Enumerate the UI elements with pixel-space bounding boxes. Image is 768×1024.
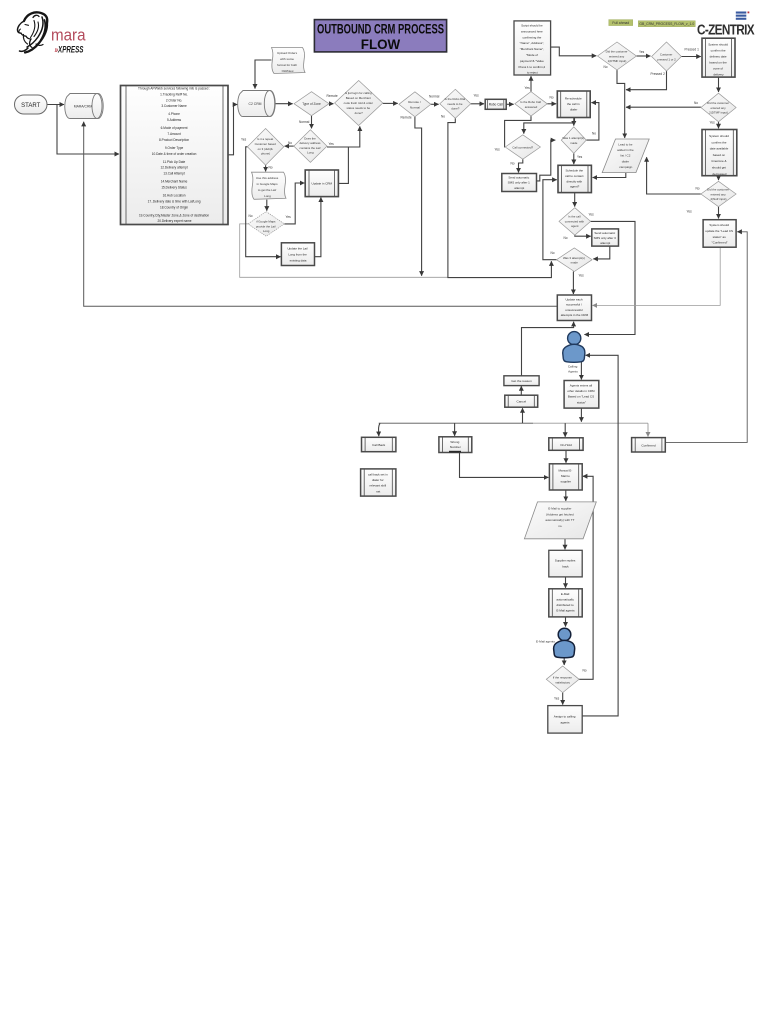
wire email parallelogram to supplier replies — [564, 539, 566, 550]
diamond: does delivery address contain lat/long — [294, 130, 327, 163]
wire distribution line gray — [533, 422, 648, 424]
wire update-in-crm loop to junction — [338, 147, 348, 183]
svg-text:MARA/CRM: MARA/CRM — [74, 105, 93, 109]
svg-text:No: No — [441, 115, 445, 119]
svg-text:Normal: Normal — [429, 95, 440, 99]
svg-text:Yes: Yes — [241, 138, 247, 142]
wire re-schedule to call connected top — [524, 118, 575, 134]
green tag 2 — [638, 21, 695, 27]
svg-text:Remote: Remote — [327, 94, 338, 98]
svg-text:E-Mail agents: E-Mail agents — [536, 640, 555, 644]
svg-text:No: No — [604, 65, 608, 69]
diamond: type of zone — [294, 92, 329, 116]
box: script announced — [514, 21, 551, 75]
box: agents enters details in CRM — [564, 381, 599, 409]
wire crm update return to mara crm — [84, 122, 558, 306]
header layer — [18, 12, 755, 55]
svg-text:No: No — [696, 187, 700, 191]
svg-text:Update in CRM: Update in CRM — [312, 182, 333, 186]
svg-text:Pressed 1: Pressed 1 — [685, 48, 700, 52]
wire upload doc to c2 crm — [255, 60, 272, 89]
diamond: customer entered 2 No# — [701, 181, 736, 206]
svg-text:Type of Zone: Type of Zone — [302, 102, 321, 106]
box: cancel — [505, 395, 538, 407]
svg-text:Remote / Normal: Remote / Normal — [408, 100, 421, 109]
svg-text:Yes: Yes — [286, 215, 292, 219]
wire was1 no loop to re-schedule — [586, 103, 599, 141]
wire update-latlong to update-in-crm — [315, 197, 321, 256]
wire branch down into info box — [57, 105, 119, 155]
wire start to mara crm — [47, 104, 64, 106]
wire script to dtmf1 diamond — [551, 47, 597, 56]
svg-text:Update the Lat/ Long from: Update the Lat/ Long from the existing d… — [287, 247, 308, 263]
svg-text:C-ZENTRIX: C-ZENTRIX — [697, 23, 755, 39]
svg-text:Did the customer entered a: Did the customer entered any 1(DTMF inpu… — [606, 50, 629, 64]
wire schedule box to connected-with-agent — [574, 193, 576, 207]
wire c2 crm to type of zone — [276, 103, 293, 105]
wire dtmf2 no merge — [626, 106, 701, 108]
c-zentrix logo icon — [736, 12, 747, 20]
wire drop to on-hold — [564, 423, 566, 437]
box: system confirm delivery date by zone — [702, 38, 735, 77]
diamond: is it a repeat customer — [247, 129, 283, 166]
parallelogram: e-mail to supplier auto address — [524, 502, 596, 539]
box: send automatic sms after 1st attempt — [502, 174, 537, 192]
wire connected-with-agent yes to calling agent — [584, 221, 635, 334]
branch labels — [241, 48, 715, 701]
wire email distributed to email agents — [565, 617, 567, 627]
wire drop to wrong number — [454, 423, 456, 436]
wire on-hold to manual email — [565, 450, 567, 463]
diamond: jkd login for calling — [335, 81, 383, 126]
start terminator — [15, 95, 48, 114]
wire robo dial yes to robo call — [471, 103, 484, 105]
svg-text:Confirmed: Confirmed — [641, 443, 656, 447]
svg-text:No: No — [694, 101, 698, 105]
box: confirmed — [632, 438, 666, 452]
wire dtmf2 yes down — [718, 122, 720, 129]
box: re-schedule the call in dialer — [557, 91, 590, 118]
svg-text:Call connected?: Call connected? — [512, 145, 533, 149]
wire assign loop to calling agent body — [582, 355, 618, 716]
svg-text:Robo Call: Robo Call — [489, 103, 503, 107]
box: manual e-mail to supplier — [549, 464, 582, 490]
cylinder C2 CRM — [238, 91, 276, 117]
svg-text:No: No — [564, 236, 568, 240]
wire get-reason to update-crm box — [522, 322, 574, 376]
wire supplier replies to email distributed — [565, 577, 567, 588]
svg-text:No: No — [592, 131, 596, 135]
wire sms3 to was3 — [593, 246, 610, 259]
svg-text:Yes: Yes — [639, 50, 645, 54]
wire was3 yes to update-crm box — [572, 272, 574, 295]
wire sms1 up to was1 left vertex — [537, 140, 556, 181]
svg-text:No: No — [269, 166, 273, 170]
svg-text:Yes: Yes — [687, 210, 693, 214]
wire doc to google diamond — [266, 200, 268, 211]
title box — [314, 20, 446, 52]
svg-text:Did the customer entered a: Did the customer entered any 2(No# input… — [707, 188, 730, 202]
svg-text:FLOW: FLOW — [361, 37, 401, 52]
wire remote/normal normal to robo dial diamond — [431, 103, 439, 105]
wire distribution line dark — [379, 422, 533, 424]
wire re-schedule to was1 — [573, 118, 575, 126]
wire confirm box to dtmf2 diamond — [718, 77, 720, 92]
diamond: customer entered 2 DTMF — [701, 93, 736, 122]
diamond: was 1 attempt made — [561, 127, 586, 154]
wire repeat yes to update-latlong — [246, 147, 281, 257]
diamond: robo call answered — [515, 92, 547, 116]
wires layer — [47, 47, 747, 716]
wire agents box down to distribution — [580, 408, 582, 422]
wire robo answered yes up to script — [530, 76, 532, 91]
svg-text:Yes: Yes — [495, 148, 501, 152]
wire wrong number to manual email — [460, 453, 549, 478]
mara xpress lion logo — [18, 12, 48, 52]
svg-text:No: No — [551, 251, 555, 255]
svg-text:Cancel: Cancel — [516, 400, 526, 404]
wire campaign to schedule box — [593, 173, 626, 178]
svg-text:Full ahmad: Full ahmad — [612, 21, 629, 25]
box: e-mail distributed to agents — [549, 589, 582, 617]
wire confirmed box loop up to status box — [665, 232, 747, 443]
wire jkd diamond to remote/normal — [383, 102, 398, 104]
wire google yes to update-in-crm — [284, 183, 304, 224]
svg-text:No: No — [583, 669, 587, 673]
wire info box to c2 crm — [228, 105, 237, 155]
diamond: is call connected with agent — [559, 208, 591, 235]
wire pressed2 merge — [626, 71, 667, 90]
svg-text:Yes: Yes — [577, 155, 583, 159]
svg-text:Yes: Yes — [589, 213, 595, 217]
box: supplier replies back — [549, 550, 582, 577]
box: assign to calling agents — [548, 706, 582, 734]
box: wrong number — [439, 437, 472, 453]
wire response no loop to manual email — [579, 476, 593, 679]
svg-text:mara: mara — [51, 26, 86, 45]
wire dtmf1 yes to pressed diamond — [637, 55, 651, 57]
svg-text:On-Hold: On-Hold — [560, 443, 572, 447]
person: calling agents — [563, 332, 585, 374]
svg-text:START: START — [21, 103, 40, 109]
svg-text:Get the reason: Get the reason — [511, 379, 532, 383]
svg-text:GB_CRM_PROCESS_FLOW_v_1.0: GB_CRM_PROCESS_FLOW_v_1.0 — [639, 22, 694, 26]
svg-text:Remote: Remote — [401, 116, 412, 120]
svg-text:No: No — [550, 96, 554, 100]
svg-text:No: No — [511, 162, 515, 166]
wire type of zone remote to jkd diamond — [329, 103, 333, 105]
svg-text:Script should be announced: Script should be announced here confirmi… — [519, 24, 547, 75]
wire pressed1 to confirm box — [681, 56, 700, 58]
person: e-mail agents — [536, 628, 575, 658]
svg-text:No: No — [249, 214, 253, 218]
svg-text:»XPRESS: »XPRESS — [55, 45, 84, 55]
svg-text:Yes: Yes — [525, 86, 531, 90]
wire repeat no down to doc — [265, 165, 267, 171]
shapes layer — [15, 21, 737, 733]
diamond: call connected? — [505, 135, 540, 159]
wire manual email to email parallelogram — [565, 490, 567, 501]
parallelogram: lead added to C2 dialer campaign — [602, 139, 649, 173]
wire drop to call back — [379, 423, 380, 436]
document: use address in google maps — [252, 172, 287, 199]
box: schedule call to contact with agent — [558, 165, 591, 192]
wire cancel to get-reason — [520, 386, 522, 395]
wire dtmf1 no down to campaign — [617, 70, 625, 138]
wire drop to confirmed — [647, 423, 649, 436]
wire gray junction east line — [240, 224, 448, 277]
diamond: robo dial needed — [440, 89, 471, 118]
wire timezone box to no# diamond — [718, 176, 720, 180]
box: send automatic sms after 3rd attempt — [592, 229, 619, 246]
wire was1 yes to schedule box — [573, 153, 575, 164]
svg-text:Wrong Number: Wrong Number — [450, 440, 461, 449]
wire no# diamond no to campaign — [647, 157, 701, 194]
diamond: was 3 attempts made — [557, 248, 593, 272]
wire connected-with-agent no to sms3 — [575, 235, 591, 236]
wire does-delivery yes up to jkd bottom — [327, 126, 360, 147]
svg-text:Normal: Normal — [299, 120, 310, 124]
box: update in CRM — [305, 170, 338, 197]
diamond: response satisfactory — [546, 666, 579, 693]
svg-text:No: No — [288, 141, 292, 145]
wire calling agent to agents box — [580, 362, 582, 380]
diamond: google maps provide lat/long — [248, 212, 284, 237]
svg-text:OUTBOUND CRM PROCESS: OUTBOUND CRM PROCESS — [317, 22, 444, 37]
wire email agents to response diamond — [563, 658, 565, 665]
diamond: customer pressed 1 or 2 — [652, 42, 682, 71]
wire remote/normal remote down to junction — [415, 117, 422, 276]
box: call back — [362, 437, 396, 451]
big info list box — [121, 86, 229, 225]
wire no# diamond yes down — [718, 207, 720, 219]
wire robo dial no down east — [448, 118, 552, 277]
green tag 1 — [609, 20, 633, 26]
wire drop up to cancel — [522, 408, 524, 423]
diamond: customer entered 1 DTMF — [598, 42, 637, 70]
svg-text:Yes: Yes — [474, 94, 480, 98]
cylinder MARA CRM — [65, 94, 103, 119]
svg-text:Yes: Yes — [329, 142, 335, 146]
svg-text:C2 CRM: C2 CRM — [249, 102, 262, 106]
svg-text:Yes: Yes — [579, 274, 585, 278]
box: update each attempt in CRM — [557, 295, 591, 321]
junction dot — [580, 375, 582, 377]
wire call connected no to sms1 — [519, 159, 523, 172]
box: on-hold — [549, 438, 583, 451]
wire was3 no loop to schedule box — [543, 180, 557, 260]
svg-text:Yes: Yes — [554, 697, 560, 701]
box: system update lead cs status confirmed — [703, 220, 736, 248]
wire response yes to assign — [562, 693, 564, 705]
document: upload orders — [272, 48, 306, 74]
box: update lat/long from existing data — [281, 243, 314, 266]
svg-text:Yes: Yes — [710, 120, 716, 124]
wire robo answered no to re-schedule — [547, 103, 556, 105]
wire does-delivery no to repeat diamond — [285, 145, 294, 147]
diamond: remote / normal — [399, 92, 431, 117]
wire robo answered bottom to call connected — [505, 116, 531, 147]
box: call back set in dialer — [361, 469, 396, 496]
wire confirmed-status gray to update-crm box — [593, 247, 721, 305]
svg-text:If the response satisfacto: If the response satisfactory — [553, 676, 573, 685]
svg-text:Did the customer entered a: Did the customer entered any 2(DTMF inpu… — [707, 101, 730, 115]
svg-text:Pressed 2: Pressed 2 — [651, 72, 666, 76]
svg-text:Calling Agents: Calling Agents — [568, 365, 578, 374]
svg-text:Call Back: Call Back — [372, 443, 386, 447]
wire type of zone normal down — [311, 116, 313, 129]
box: system confirm date available timezone — [702, 130, 737, 176]
box: get the reason — [504, 376, 539, 386]
box: robo call — [485, 99, 506, 109]
wire robo call to answered diamond — [506, 103, 513, 105]
